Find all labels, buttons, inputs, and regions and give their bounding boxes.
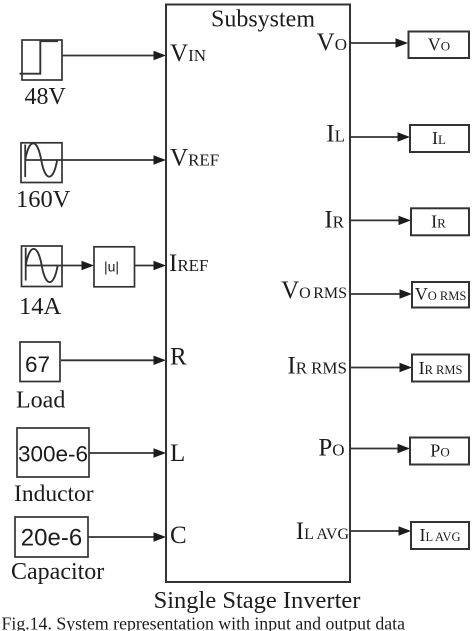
port label VO RMS <box>281 277 347 304</box>
port label L <box>170 440 185 467</box>
wire 48V to VIN <box>62 51 166 60</box>
svg-text:Fig.14. System representation: Fig.14. System representation with input… <box>2 613 406 631</box>
svg-text:VREF: VREF <box>170 145 219 172</box>
name label Load <box>16 388 65 414</box>
constant block 67 <box>20 342 60 382</box>
wire 300e-6 to L <box>89 448 166 457</box>
value label 48V <box>25 84 67 110</box>
svg-text:IL AVG: IL AVG <box>419 525 460 545</box>
name label Capacitor <box>11 559 104 585</box>
name label Inductor <box>14 481 94 507</box>
svg-text:PO: PO <box>318 435 344 462</box>
svg-text:Single Stage Inverter: Single Stage Inverter <box>154 587 361 614</box>
svg-text:IREF: IREF <box>169 250 209 277</box>
svg-text:20e-6: 20e-6 <box>21 525 82 552</box>
display box IL <box>410 125 469 152</box>
subsystem block U1 <box>166 5 350 583</box>
svg-text:IL: IL <box>432 128 446 148</box>
svg-text:IRRMS: IRRMS <box>287 353 347 380</box>
svg-text:IL: IL <box>326 121 345 148</box>
wire 14A to abs block <box>62 261 94 270</box>
display box Po <box>410 438 469 465</box>
svg-text:Load: Load <box>16 388 65 414</box>
wire 160V to VREF <box>62 155 166 164</box>
value label 14A <box>19 293 62 320</box>
port label R <box>170 344 187 371</box>
svg-text:ILAVG: ILAVG <box>296 518 350 545</box>
svg-text:IR RMS: IR RMS <box>419 358 463 378</box>
svg-text:VO: VO <box>428 35 450 55</box>
port label IREF <box>169 250 209 277</box>
svg-text:R: R <box>170 344 187 371</box>
display box Vo <box>409 32 470 59</box>
svg-text:VO: VO <box>317 29 347 56</box>
svg-text:L: L <box>170 440 185 467</box>
wire IR to display <box>350 216 411 225</box>
svg-text:IR: IR <box>431 211 446 231</box>
figure caption <box>2 613 406 631</box>
svg-text:Capacitor: Capacitor <box>11 559 104 585</box>
port label IL <box>326 121 345 148</box>
sine source 160V <box>21 143 62 183</box>
sine source 14A <box>22 246 63 287</box>
port label VIN <box>170 40 206 67</box>
subsystem name label: Single Stage Inverter <box>154 587 361 614</box>
svg-text:C: C <box>170 522 187 549</box>
svg-text:67: 67 <box>25 352 50 377</box>
svg-text:VIN: VIN <box>170 40 206 67</box>
abs block |u| <box>94 247 135 287</box>
wire 67 to R <box>61 356 166 365</box>
constant block 20e-6 <box>15 517 88 557</box>
svg-text:|u|: |u| <box>104 259 119 275</box>
wire IL to display <box>350 132 410 141</box>
port label PO <box>318 435 344 462</box>
port label C <box>170 522 187 549</box>
svg-text:48V: 48V <box>25 84 67 110</box>
value label 160V <box>16 186 71 213</box>
port label VO <box>317 29 347 56</box>
port label IR RMS <box>287 353 347 380</box>
constant block 300e-6 <box>17 428 89 477</box>
port label VREF <box>170 145 219 172</box>
subsystem title label <box>211 7 315 33</box>
step source 48V <box>20 40 63 80</box>
svg-text:300e-6: 300e-6 <box>18 442 88 467</box>
display box Ir RMS <box>412 355 469 382</box>
wire IL AVG to display <box>350 526 411 535</box>
display box IL avg <box>411 522 469 549</box>
wire VO to display <box>350 38 408 47</box>
wire 20e-6 to C <box>88 532 166 541</box>
svg-text:Subsystem: Subsystem <box>211 7 315 33</box>
svg-text:PO: PO <box>430 441 449 461</box>
svg-text:14A: 14A <box>19 293 62 320</box>
port label IL AVG <box>296 518 350 545</box>
svg-text:160V: 160V <box>16 186 71 213</box>
display box IR <box>411 208 469 235</box>
wire abs block to IREF <box>135 261 167 270</box>
svg-text:IR: IR <box>324 207 344 234</box>
svg-text:VORMS: VORMS <box>281 277 347 304</box>
display box Vo RMS <box>412 282 469 308</box>
port label IR <box>324 207 344 234</box>
svg-text:VO RMS: VO RMS <box>415 284 467 304</box>
wire IR RMS to display <box>350 363 412 372</box>
svg-text:Inductor: Inductor <box>14 481 94 507</box>
wire VO RMS to display <box>350 289 412 298</box>
wire PO to display <box>350 444 410 453</box>
